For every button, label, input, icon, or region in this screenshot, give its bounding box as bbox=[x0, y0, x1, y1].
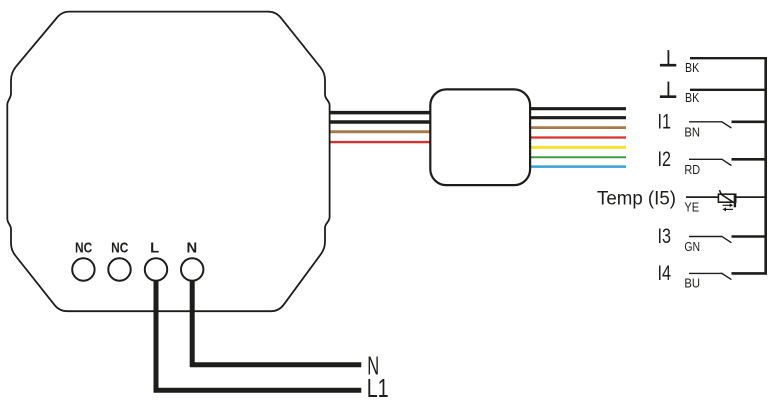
device body (flush-mount relay outline) bbox=[7, 12, 329, 312]
row 5: wire left bbox=[686, 196, 718, 198]
wire L thick (vertical from L terminal, then right, label L1) bbox=[156, 280, 361, 390]
cable bundle right: green wire (GN) bbox=[529, 156, 626, 158]
terminal NC 2 bbox=[108, 258, 130, 280]
row 1: wire BK bbox=[690, 57, 767, 59]
svg-text:YE: YE bbox=[684, 201, 699, 215]
terminal N bbox=[181, 258, 203, 280]
svg-text:BK: BK bbox=[685, 61, 700, 75]
terminal NC 1 bbox=[72, 258, 94, 280]
svg-text:BU: BU bbox=[684, 277, 700, 291]
wire N thick (vertical from N terminal, then right, label N) bbox=[192, 280, 361, 365]
row 2: wire BK bbox=[690, 89, 767, 91]
bus vertical wire (right) bbox=[764, 57, 767, 275]
cable bundle right: black wire 2 (BK) bbox=[529, 116, 626, 119]
row 5: thermistor temperature sensor bbox=[718, 190, 735, 207]
svg-text:I2: I2 bbox=[658, 147, 672, 171]
cable bundle right: blue wire (BU) bbox=[529, 165, 626, 168]
cable bundle left: brown wire bbox=[331, 130, 432, 133]
row 1: ground symbol bbox=[660, 50, 676, 65]
row 5: small arrows bbox=[722, 203, 733, 211]
cable bundle left: red wire bbox=[331, 141, 432, 143]
row 3: switch I1 bbox=[689, 121, 767, 128]
svg-text:NC: NC bbox=[75, 240, 92, 256]
svg-text:NC: NC bbox=[111, 240, 128, 256]
svg-text:I3: I3 bbox=[658, 224, 672, 248]
row 4: switch I2 bbox=[689, 159, 767, 166]
svg-text:BK: BK bbox=[685, 91, 700, 105]
cable bundle right: brown wire (BN) bbox=[529, 126, 626, 129]
svg-text:RD: RD bbox=[684, 163, 700, 177]
row 5: wire right bbox=[736, 196, 767, 198]
add-on connector module bbox=[430, 89, 530, 185]
svg-text:L: L bbox=[150, 240, 159, 256]
svg-text:I1: I1 bbox=[658, 109, 672, 133]
cable bundle left: black wire 1 bbox=[331, 111, 432, 115]
cable bundle left: black wire 2 bbox=[331, 120, 432, 124]
svg-text:BN: BN bbox=[684, 125, 700, 139]
row 6: switch I3 bbox=[689, 236, 767, 243]
cable bundle right: black wire 1 (BK) bbox=[529, 107, 626, 110]
svg-text:I4: I4 bbox=[658, 261, 672, 285]
svg-text:N: N bbox=[187, 240, 198, 256]
cable bundle right: yellow wire (YE) bbox=[529, 146, 626, 149]
row 7: switch I4 bbox=[689, 273, 767, 280]
svg-text:GN: GN bbox=[684, 240, 700, 254]
row 2: ground symbol bbox=[660, 82, 676, 97]
terminal L bbox=[145, 258, 167, 280]
svg-text:Temp (I5): Temp (I5) bbox=[597, 188, 676, 209]
cable bundle right: red wire (RD) bbox=[529, 136, 626, 138]
svg-text:L1: L1 bbox=[367, 375, 389, 403]
